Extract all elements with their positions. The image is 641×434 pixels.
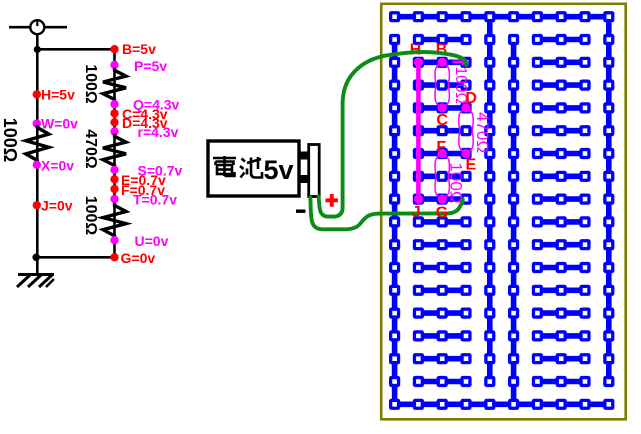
breadboard pin letters <box>410 42 477 174</box>
svg-text:X=0v: X=0v <box>41 157 74 173</box>
battery connector bar <box>309 145 320 197</box>
node C <box>110 106 167 122</box>
wire from terminal to top junction <box>36 34 39 51</box>
svg-text:B: B <box>436 42 448 59</box>
breadboard resistor 100ohm col3 rows7-9 <box>435 154 449 200</box>
wire right branch vertical <box>113 49 116 257</box>
node S <box>110 163 182 179</box>
breadboard tie bars left group rows2-17 <box>418 40 466 382</box>
node B <box>110 41 156 57</box>
breadboard resistor 470ohm col4 rows5-7 <box>459 108 473 154</box>
wire left branch vertical <box>36 49 39 275</box>
svg-text:G: G <box>436 205 448 222</box>
breadboard top bus row1 <box>395 14 609 20</box>
breadboard frame <box>381 4 626 420</box>
node U <box>110 233 168 249</box>
resistor R2 470ohm <box>103 134 126 168</box>
resistor R3 100ohm <box>103 203 126 238</box>
node H <box>33 87 75 103</box>
svg-text:r=4.3v: r=4.3v <box>138 124 179 140</box>
power source terminal symbol <box>9 20 67 34</box>
node r <box>110 124 178 140</box>
node G <box>110 250 155 266</box>
breadboard bottom bus row18 <box>395 401 609 407</box>
resistor R1 100ohm <box>103 68 126 102</box>
battery label kanji DEN (electric) <box>213 156 236 176</box>
breadboard left rail col1 <box>392 40 398 405</box>
breadboard mid rail col5 <box>487 17 493 382</box>
svg-text:470Ω: 470Ω <box>82 129 99 169</box>
breadboard resistor 100ohm col3 rows3-5 <box>435 62 449 108</box>
node junction top <box>34 46 41 53</box>
ground <box>17 275 54 288</box>
svg-text:D: D <box>465 90 477 107</box>
svg-text:5v: 5v <box>264 155 294 185</box>
svg-text:U=0v: U=0v <box>135 233 169 249</box>
svg-text:B=5v: B=5v <box>122 41 156 57</box>
svg-text:F: F <box>436 139 446 156</box>
svg-text:W=0v: W=0v <box>41 116 78 132</box>
node D <box>110 115 167 131</box>
svg-text:J=0v: J=0v <box>41 198 73 214</box>
node E <box>110 172 166 188</box>
resistor left 100ohm <box>26 125 49 163</box>
breadboard mid rail col6 <box>511 40 517 405</box>
svg-text:E: E <box>465 157 476 174</box>
node P <box>110 58 167 74</box>
svg-text:470Ω: 470Ω <box>473 112 492 153</box>
wire battery minus to breadboard hole col4 row9 <box>310 198 463 230</box>
svg-text:G=0v: G=0v <box>121 250 156 266</box>
breadboard holes grid <box>389 11 614 410</box>
arrow pointing to plus hole col4 row3 <box>453 58 470 66</box>
jumper wire col2 row3 to row9 <box>416 62 421 199</box>
breadboard right rail col10 <box>606 17 612 382</box>
svg-text:J: J <box>412 204 421 221</box>
battery body <box>208 141 299 196</box>
node J <box>33 198 73 214</box>
breadboard tie bars right group rows2-17 <box>537 40 585 382</box>
plus sign <box>326 194 338 207</box>
node Q <box>110 97 179 113</box>
node T <box>110 192 177 208</box>
svg-text:100Ω: 100Ω <box>0 118 20 162</box>
svg-text:100Ω: 100Ω <box>82 196 99 236</box>
svg-text:H=5v: H=5v <box>41 87 75 103</box>
node W <box>33 116 79 132</box>
node F <box>110 182 165 198</box>
wire top horizontal to node B <box>37 48 114 51</box>
wire bottom horizontal to node G <box>36 256 114 259</box>
battery terminal tabs <box>300 152 308 160</box>
svg-text:100Ω: 100Ω <box>82 64 99 104</box>
svg-text:P=5v: P=5v <box>134 58 167 74</box>
breadboard pin dots <box>414 58 471 204</box>
svg-text:100Ω: 100Ω <box>446 162 465 203</box>
svg-text:C: C <box>436 112 448 129</box>
svg-text:T=0.7v: T=0.7v <box>133 192 177 208</box>
battery label kanji CHI (pond) <box>240 157 262 178</box>
breadboard hole centers white <box>392 14 611 406</box>
svg-text:H: H <box>410 42 422 59</box>
node junction bottom <box>32 253 40 261</box>
wire battery plus to breadboard hole col4 row3 <box>319 52 467 217</box>
minus sign <box>296 210 306 213</box>
node X <box>33 157 75 173</box>
